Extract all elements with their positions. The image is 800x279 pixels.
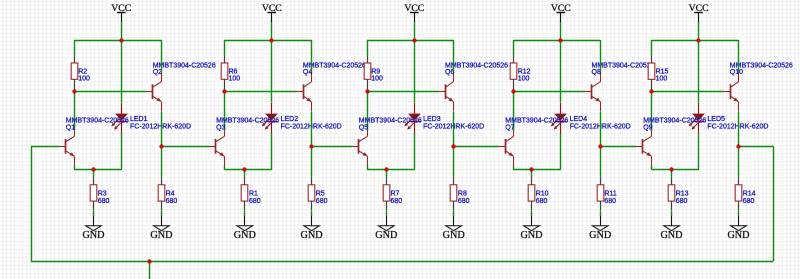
wire VCC to LED3 anode: [414, 40, 416, 103]
wire rail to R12: [513, 40, 515, 55]
wire base node to Q2 base: [74, 91, 146, 93]
wire base node to Q8 base: [514, 91, 586, 93]
node VCC junction stage 1: [119, 38, 123, 42]
svg-text:GND: GND: [443, 230, 465, 241]
svg-text:LED1: LED1: [130, 116, 148, 123]
resistor R8 680: [453, 177, 455, 185]
node VCC junction stage 3: [412, 38, 416, 42]
transistor Q7 MMBT3904-C20526: [505, 139, 507, 154]
transistor Q2 MMBT3904-C20526: [152, 84, 154, 99]
wire Q10 emitter down: [738, 112, 740, 147]
wire overlay on Q7 collector pin: [513, 124, 515, 131]
transistor Q9 MMBT3904-C20526: [642, 139, 644, 154]
node bottom-left junction stage 2: [242, 167, 246, 171]
svg-text:GND: GND: [375, 230, 397, 241]
ground under R3: [93, 216, 95, 226]
wire bottom horizontal stage 2: [224, 169, 271, 171]
resistor R15 100: [651, 55, 653, 63]
wire LED5 cathode down: [698, 133, 700, 169]
resistor R9 100: [367, 55, 369, 63]
wire R7 to ground: [386, 211, 388, 216]
svg-text:GND: GND: [520, 230, 542, 241]
svg-text:100: 100: [371, 76, 383, 83]
node VCC junction stage 5: [696, 38, 700, 42]
wire Q6 emitter down: [453, 112, 455, 147]
wire R1 to ground: [244, 211, 246, 216]
wire R14 to ground: [738, 211, 740, 216]
wire rail to Q2 collector: [161, 40, 163, 72]
wire base node down to Q9 collector: [651, 92, 653, 127]
transistor Q6 MMBT3904-C20526: [445, 84, 447, 99]
node bottom tap junction: [147, 259, 151, 263]
wire rail to Q4 collector: [311, 40, 313, 72]
svg-text:100: 100: [78, 76, 90, 83]
svg-text:680: 680: [604, 198, 616, 205]
svg-text:Q1: Q1: [66, 124, 75, 131]
ground under R10: [531, 216, 533, 226]
wire feedback bottom horizontal: [31, 261, 773, 263]
wire feedback to Q1 base: [31, 146, 59, 148]
wire emitter junction to R4: [161, 146, 163, 177]
wire emitter junction to R11: [600, 146, 602, 177]
wire Q5 emitter to bottom rail: [367, 166, 369, 170]
wire overlay on Q9 collector pin: [651, 124, 653, 131]
svg-text:R8: R8: [458, 191, 467, 198]
svg-text:680: 680: [458, 198, 470, 205]
transistor Q5 MMBT3904-C20526: [358, 139, 360, 154]
wire junction to R10: [531, 170, 533, 178]
svg-text:LED2: LED2: [281, 116, 299, 123]
ground under R11: [600, 216, 602, 226]
ground under R13: [671, 216, 673, 226]
svg-text:680: 680: [391, 198, 403, 205]
wire bottom horizontal stage 4: [514, 169, 561, 171]
svg-text:680: 680: [743, 198, 755, 205]
wire VCC to LED4 anode: [560, 40, 562, 103]
node VCC junction stage 2: [269, 38, 273, 42]
svg-text:R13: R13: [676, 191, 689, 198]
LED LED1 FC-2012HRK-620D: [121, 103, 123, 114]
resistor R7 680: [386, 177, 388, 185]
resistor R14 680: [738, 177, 740, 185]
wire top rail stage 2: [224, 40, 311, 42]
wire junction to R1: [244, 170, 246, 178]
wire junction to R3: [93, 170, 95, 178]
svg-text:R11: R11: [604, 191, 616, 198]
wire R10 to ground: [531, 211, 533, 216]
wire Q7 emitter to bottom rail: [513, 166, 515, 170]
svg-text:680: 680: [316, 198, 328, 205]
wire LED4 cathode down: [560, 133, 562, 169]
svg-text:MMBT3904-C20526: MMBT3904-C20526: [359, 118, 422, 125]
svg-text:MMBT3904-C20526: MMBT3904-C20526: [66, 118, 129, 125]
transistor Q4 MMBT3904-C20526: [303, 84, 305, 99]
node base junction stage 3: [365, 89, 369, 93]
wire base node down to Q3 collector: [224, 92, 226, 127]
svg-text:FC-2012HRK-620D: FC-2012HRK-620D: [130, 124, 191, 131]
wire bottom tap stub: [149, 261, 151, 279]
wire base node to Q4 base: [224, 91, 296, 93]
wire rail to R2: [74, 40, 76, 55]
svg-text:GND: GND: [234, 230, 256, 241]
svg-text:680: 680: [676, 198, 688, 205]
wire rail to Q8 collector: [600, 40, 602, 72]
ground under R1: [244, 216, 246, 226]
wire stage 3 emitter to stage 4 base: [454, 146, 499, 148]
svg-text:Q9: Q9: [643, 124, 652, 131]
wire base node to Q10 base: [651, 91, 723, 93]
wire LED1 cathode down: [121, 133, 123, 169]
wire emitter junction to R5: [311, 146, 313, 177]
wire rail to Q10 collector: [738, 40, 740, 72]
wire stage 2 emitter to stage 3 base: [312, 146, 352, 148]
ground under R5: [311, 216, 313, 226]
svg-text:100: 100: [229, 76, 241, 83]
svg-text:LED3: LED3: [423, 116, 441, 123]
wire VCC stem stage 5: [698, 22, 700, 40]
wire Q9 emitter to bottom rail: [651, 166, 653, 170]
wire R5 to ground: [311, 211, 313, 216]
node base junction stage 1: [72, 89, 76, 93]
node base junction stage 5: [649, 89, 653, 93]
node bottom-left junction stage 3: [384, 167, 388, 171]
wire rail to R9: [367, 40, 369, 55]
wire Q2 emitter down: [161, 112, 163, 147]
wire VCC to LED1 anode: [121, 40, 123, 103]
node base junction stage 4: [511, 89, 515, 93]
node base junction stage 2: [222, 89, 226, 93]
svg-text:LED5: LED5: [707, 116, 725, 123]
wire R13 to ground: [671, 211, 673, 216]
wire VCC stem stage 4: [560, 22, 562, 40]
wire overlay on Q1 collector pin: [74, 124, 76, 131]
wire junction to R13: [671, 170, 673, 178]
svg-text:LED4: LED4: [570, 116, 588, 123]
svg-text:MMBT3904-C20526: MMBT3904-C20526: [216, 118, 279, 125]
resistor R4 680: [161, 177, 163, 185]
node VCC junction stage 4: [558, 38, 562, 42]
LED LED3 FC-2012HRK-620D: [414, 103, 416, 114]
wire feedback right vertical: [773, 146, 775, 261]
resistor R3 680: [93, 177, 95, 185]
node bottom-left junction stage 1: [91, 167, 95, 171]
node bottom-left junction stage 5: [669, 167, 673, 171]
node emitter junction stage 3: [451, 144, 455, 148]
ground under R4: [161, 216, 163, 226]
wire VCC stem stage 2: [271, 22, 273, 40]
svg-text:MMBT3904-C20526: MMBT3904-C20526: [445, 62, 508, 69]
wire feedback left vertical: [31, 146, 33, 261]
transistor Q10 MMBT3904-C20526: [730, 84, 732, 99]
node emitter junction stage 4: [598, 144, 602, 148]
wire bottom horizontal stage 1: [74, 169, 121, 171]
LED LED2 FC-2012HRK-620D: [271, 103, 273, 114]
wire base node to Q6 base: [367, 91, 439, 93]
svg-text:GND: GND: [301, 230, 323, 241]
resistor R13 680: [671, 177, 673, 185]
transistor Q8 MMBT3904-C20526: [591, 84, 593, 99]
resistor R12 100: [513, 55, 515, 63]
wire stage 4 emitter to stage 5 base: [600, 146, 636, 148]
svg-text:R3: R3: [98, 191, 107, 198]
wire Q1 emitter to bottom rail: [74, 166, 76, 170]
svg-text:R7: R7: [391, 191, 400, 198]
svg-text:680: 680: [166, 198, 178, 205]
node emitter junction stage 5: [736, 144, 740, 148]
wire LED2 cathode down: [271, 133, 273, 169]
svg-text:Q8: Q8: [592, 69, 601, 76]
svg-text:GND: GND: [150, 230, 172, 241]
wire overlay on Q3 collector pin: [224, 124, 226, 131]
svg-text:Q5: Q5: [359, 124, 368, 131]
transistor Q3 MMBT3904-C20526: [215, 139, 217, 154]
svg-text:MMBT3904-C20526: MMBT3904-C20526: [505, 118, 568, 125]
svg-text:GND: GND: [82, 230, 104, 241]
wire R4 to ground: [161, 211, 163, 216]
wire R8 to ground: [453, 211, 455, 216]
wire emitter junction to R8: [453, 146, 455, 177]
wire top rail stage 5: [651, 40, 738, 42]
wire base node down to Q1 collector: [74, 92, 76, 127]
resistor R2 100: [74, 55, 76, 63]
wire VCC to LED5 anode: [698, 40, 700, 103]
transistor Q1 MMBT3904-C20526: [65, 139, 67, 154]
wire Q8 emitter down: [600, 112, 602, 147]
LED LED5 FC-2012HRK-620D: [698, 103, 700, 114]
svg-text:MMBT3904-C20526: MMBT3904-C20526: [303, 62, 366, 69]
svg-text:680: 680: [536, 198, 548, 205]
node emitter junction stage 2: [309, 144, 313, 148]
svg-text:100: 100: [518, 76, 530, 83]
wire rail to R6: [224, 40, 226, 55]
wire emitter junction to R14: [738, 146, 740, 177]
ground under R7: [386, 216, 388, 226]
wire top rail stage 4: [514, 40, 601, 42]
wire VCC stem stage 3: [414, 22, 416, 40]
ground under R8: [453, 216, 455, 226]
svg-text:R10: R10: [536, 191, 549, 198]
svg-text:GND: GND: [589, 230, 611, 241]
svg-text:100: 100: [656, 76, 668, 83]
wire VCC stem stage 1: [121, 22, 123, 40]
wire Q3 emitter to bottom rail: [224, 166, 226, 170]
svg-text:GND: GND: [727, 230, 749, 241]
svg-text:R4: R4: [166, 191, 175, 198]
svg-text:680: 680: [249, 198, 261, 205]
wire R11 to ground: [600, 211, 602, 216]
svg-text:Q2: Q2: [153, 69, 162, 76]
wire LED3 cathode down: [414, 133, 416, 169]
svg-text:Q3: Q3: [216, 124, 225, 131]
wire rail to R15: [651, 40, 653, 55]
wire bottom horizontal stage 3: [367, 169, 414, 171]
svg-text:MMBT3904-C20526: MMBT3904-C20526: [643, 118, 706, 125]
resistor R5 680: [311, 177, 313, 185]
svg-text:GND: GND: [660, 230, 682, 241]
wire base node down to Q5 collector: [367, 92, 369, 127]
resistor R6 100: [224, 55, 226, 63]
wire stage 1 emitter to stage 2 base: [161, 146, 209, 148]
svg-text:680: 680: [98, 198, 110, 205]
ground under R14: [738, 216, 740, 226]
resistor R10 680: [531, 177, 533, 185]
resistor R1 680: [244, 177, 246, 185]
resistor R11 680: [600, 177, 602, 185]
LED LED4 FC-2012HRK-620D: [560, 103, 562, 114]
wire VCC to LED2 anode: [271, 40, 273, 103]
wire top rail stage 3: [367, 40, 454, 42]
wire base node down to Q7 collector: [513, 92, 515, 127]
svg-text:Q7: Q7: [505, 124, 514, 131]
wire feedback from stage 5 emitter to right edge: [739, 146, 774, 148]
svg-text:R5: R5: [316, 191, 325, 198]
node emitter junction stage 1: [159, 144, 163, 148]
wire bottom horizontal stage 5: [651, 169, 698, 171]
svg-text:R1: R1: [249, 191, 258, 198]
wire rail to Q6 collector: [453, 40, 455, 72]
wire top rail stage 1: [74, 40, 161, 42]
wire Q4 emitter down: [311, 112, 313, 147]
wire R3 to ground: [93, 211, 95, 216]
node bottom-left junction stage 4: [529, 167, 533, 171]
svg-text:Q10: Q10: [730, 69, 743, 76]
svg-text:R14: R14: [743, 191, 756, 198]
wire overlay on Q5 collector pin: [367, 124, 369, 131]
wire junction to R7: [386, 170, 388, 178]
